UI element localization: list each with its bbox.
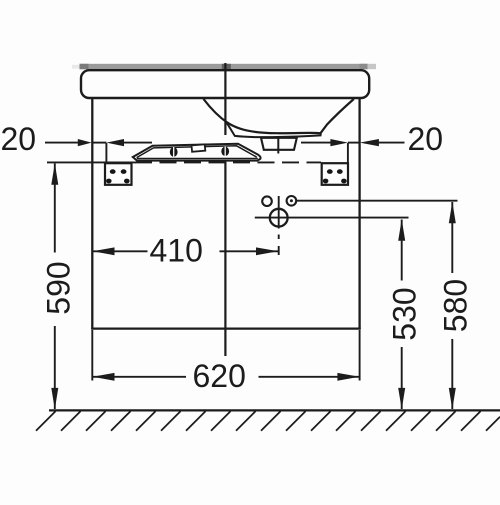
crosshair vertical xyxy=(278,196,280,229)
dim 20 right span line xyxy=(348,142,360,144)
rail screw left xyxy=(170,147,178,156)
floor hatching xyxy=(36,411,500,431)
580 extension line from right hole xyxy=(297,200,458,202)
wall bracket left xyxy=(105,163,132,185)
dim 590 down arrow xyxy=(51,388,58,410)
center line upper segment xyxy=(224,63,226,135)
cabinet left side xyxy=(91,98,93,329)
rail clip notch xyxy=(192,144,206,152)
mounting rail body xyxy=(133,144,261,161)
fixing hole left xyxy=(262,196,272,206)
cabinet bottom xyxy=(91,327,361,329)
svg-text:20: 20 xyxy=(1,121,37,157)
rail screw right xyxy=(221,147,229,156)
dim 590 up arrow xyxy=(51,163,58,185)
dim 20 left inner tail xyxy=(124,142,152,144)
dim 20 right inner tail xyxy=(301,142,331,144)
dim 410 right arrow xyxy=(256,247,278,255)
mounting rail inner edge xyxy=(137,146,257,158)
dim 20 right outer arrow xyxy=(360,139,379,146)
wall bracket right xyxy=(322,163,348,185)
basin bowl outer wall xyxy=(204,99,354,133)
dim 580 down arrow xyxy=(449,388,456,410)
dim 410 line right segment xyxy=(220,250,279,252)
dim 620 right arrow xyxy=(337,373,359,381)
dim 530 vertical line lower xyxy=(401,347,403,409)
dim 410 line left segment xyxy=(93,250,148,252)
svg-text:410: 410 xyxy=(150,233,203,269)
svg-text:530: 530 xyxy=(387,287,423,340)
dim 20 right inner arrow xyxy=(330,139,348,146)
dim 530 up arrow xyxy=(398,219,405,241)
dim 620 left arrow xyxy=(93,373,115,381)
dim 590 vertical line lower xyxy=(54,326,56,409)
svg-text:580: 580 xyxy=(438,279,474,332)
dim 20 left inner arrow xyxy=(106,139,124,146)
svg-text:20: 20 xyxy=(408,121,444,157)
dim 20 right extension line xyxy=(347,143,349,163)
dim 620 line left segment xyxy=(93,376,187,378)
drain fitting xyxy=(261,138,297,150)
basin front panel xyxy=(81,70,369,98)
countertop edge light right cap xyxy=(368,64,376,69)
floor line xyxy=(49,409,500,411)
countertop center dark square xyxy=(222,64,231,69)
svg-text:620: 620 xyxy=(193,358,246,394)
dim 590 vertical line upper xyxy=(54,164,56,253)
countertop edge dark left cap xyxy=(80,64,89,69)
fixing hole right xyxy=(287,196,297,206)
dim 20 right tail line xyxy=(377,142,404,144)
cabinet right side xyxy=(358,98,360,329)
dim 20 left tail line xyxy=(45,142,79,144)
svg-text:590: 590 xyxy=(41,261,77,314)
dim 530 down arrow xyxy=(398,388,405,410)
hidden dashed line to wall brackets xyxy=(135,161,321,163)
dim 580 up arrow xyxy=(449,202,456,224)
dim 410 left arrow xyxy=(93,247,115,255)
590 extension line top xyxy=(47,161,136,163)
countertop edge gray bar xyxy=(80,64,368,69)
basin bowl lip xyxy=(226,122,321,138)
dim 530 vertical line upper xyxy=(401,220,403,281)
center line lower segment xyxy=(224,161,226,356)
dim 580 vertical line lower xyxy=(451,339,453,409)
dim 620 line right segment xyxy=(259,376,360,378)
dim 20 left extension line xyxy=(105,143,107,163)
dim 620 extension line left xyxy=(91,330,93,381)
mounting rail bottom fold line xyxy=(137,158,258,160)
drain crosshair circle xyxy=(270,209,288,227)
dim 20 left outer arrow xyxy=(78,139,92,146)
countertop edge light left segment xyxy=(72,65,80,69)
crosshair horizontal / 530 extension line xyxy=(255,217,409,219)
countertop edge dark right segment xyxy=(360,64,368,69)
dim 580 vertical line upper xyxy=(451,202,453,273)
drain center line xyxy=(277,138,279,154)
dim 620 extension line right xyxy=(359,330,361,381)
dim 20 left span line xyxy=(92,142,107,144)
